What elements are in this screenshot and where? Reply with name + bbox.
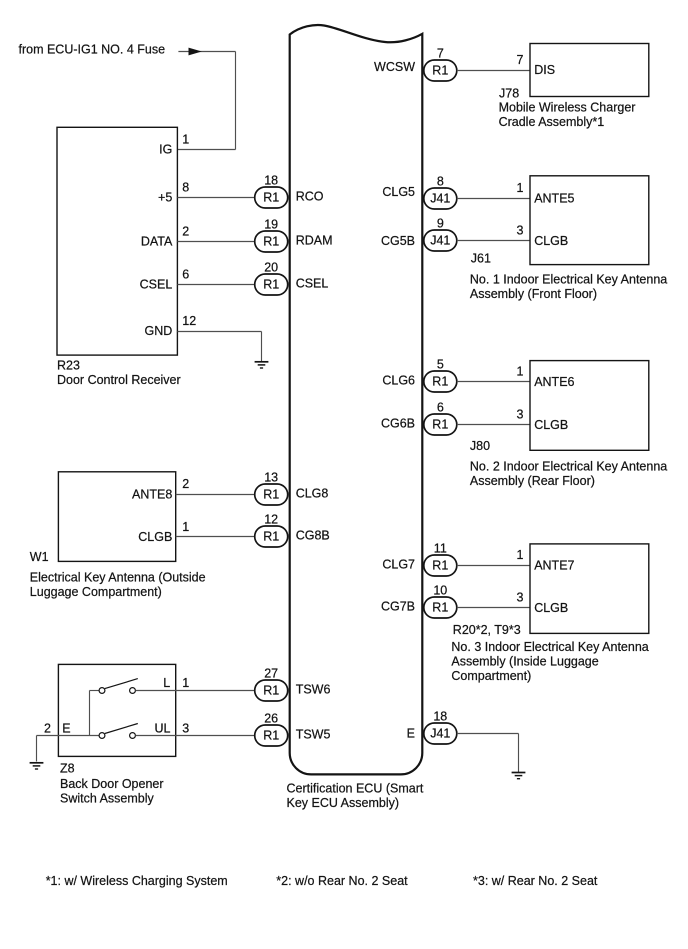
svg-text:Assembly (Inside Luggage: Assembly (Inside Luggage <box>451 655 598 669</box>
wire: CLG7 to ANTE7 pin 1 <box>457 565 530 567</box>
svg-text:18: 18 <box>433 710 447 724</box>
svg-text:CG5B: CG5B <box>381 234 415 248</box>
ECU block: Certification ECU (Smart Key ECU Assembly), wavy-top outline <box>290 25 423 774</box>
wire: W1 ANTE8 to R1 pin 13 <box>176 494 255 496</box>
svg-text:Back Door Opener: Back Door Opener <box>60 777 164 791</box>
svg-text:Mobile Wireless Charger: Mobile Wireless Charger <box>499 101 636 115</box>
svg-text:2: 2 <box>182 225 189 239</box>
svg-text:*1: w/ Wireless Charging Syste: *1: w/ Wireless Charging System <box>46 874 228 888</box>
svg-text:CLGB: CLGB <box>138 530 172 544</box>
wire: fuse feed vertical drop to IG <box>235 52 237 150</box>
svg-text:CLG6: CLG6 <box>382 374 415 388</box>
svg-text:2: 2 <box>44 721 51 735</box>
svg-text:R1: R1 <box>263 488 279 502</box>
svg-text:12: 12 <box>264 513 278 527</box>
switch S1 upper (L) contacts and lever <box>99 679 138 694</box>
svg-text:E: E <box>407 727 415 741</box>
svg-text:ANTE8: ANTE8 <box>132 487 172 501</box>
svg-text:7: 7 <box>437 47 444 61</box>
wire: R23 DATA to R1 pin 19 <box>177 241 254 243</box>
connector oval J41 pin 18 (E) <box>424 710 457 744</box>
svg-text:19: 19 <box>264 218 278 232</box>
component box J61 No.1 Indoor Electrical Key Antenna <box>530 176 649 265</box>
arrowhead on fuse feed wire <box>189 48 202 56</box>
svg-text:R1: R1 <box>263 278 279 292</box>
wire: R23 GND vertical <box>261 332 263 362</box>
svg-text:R1: R1 <box>432 559 448 573</box>
svg-text:R1: R1 <box>432 375 448 389</box>
svg-text:CSEL: CSEL <box>140 278 173 292</box>
svg-text:1: 1 <box>182 676 189 690</box>
svg-text:R1: R1 <box>263 684 279 698</box>
svg-text:J78: J78 <box>499 86 519 100</box>
component box J80 No.2 Indoor Electrical Key Antenna <box>530 361 649 451</box>
svg-text:DATA: DATA <box>141 234 173 248</box>
svg-text:TSW6: TSW6 <box>296 683 331 697</box>
connector oval R1 pin 11 (CLG7) <box>424 542 457 576</box>
svg-text:R20*2, T9*3: R20*2, T9*3 <box>453 623 521 637</box>
wire: upper switch to R1 pin 27 TSW6 <box>135 690 254 692</box>
svg-text:J41: J41 <box>430 192 450 206</box>
connector oval J41 pin 9 (CG5B) <box>424 217 457 251</box>
svg-text:DIS: DIS <box>534 63 555 77</box>
component box W1 Electrical Key Antenna <box>58 472 175 562</box>
component box R23 Door Control Receiver <box>57 127 177 355</box>
wire: R23 CSEL to R1 pin 20 <box>177 284 254 286</box>
connector oval R1 pin 13 (CLG8) <box>255 471 288 505</box>
svg-text:No. 3 Indoor Electrical Key An: No. 3 Indoor Electrical Key Antenna <box>451 640 648 654</box>
wire: IG pin 1 of R23 <box>177 149 235 151</box>
svg-text:CSEL: CSEL <box>296 277 329 291</box>
wire: CLG6 to ANTE6 pin 1 <box>457 381 530 383</box>
svg-text:Assembly (Front Floor): Assembly (Front Floor) <box>470 287 597 301</box>
ground symbol (Z8 E) <box>30 763 44 769</box>
svg-text:10: 10 <box>433 584 447 598</box>
svg-text:1: 1 <box>517 548 524 562</box>
svg-text:CLG5: CLG5 <box>382 185 415 199</box>
svg-text:from ECU-IG1 NO. 4 Fuse: from ECU-IG1 NO. 4 Fuse <box>19 42 166 56</box>
ground symbol (ECU E) <box>512 773 526 779</box>
svg-text:Z8: Z8 <box>60 761 75 775</box>
svg-text:13: 13 <box>264 471 278 485</box>
component box Z8 Back Door Opener Switch <box>58 664 175 756</box>
svg-text:8: 8 <box>182 181 189 195</box>
svg-text:CG7B: CG7B <box>381 600 415 614</box>
svg-text:R1: R1 <box>432 418 448 432</box>
svg-text:RCO: RCO <box>296 190 324 204</box>
svg-text:CLGB: CLGB <box>534 418 568 432</box>
svg-text:8: 8 <box>437 175 444 189</box>
svg-text:R1: R1 <box>432 64 448 78</box>
component box J78 Mobile Wireless Charger Cradle <box>530 44 649 97</box>
ground symbol (R23 GND) <box>255 362 269 368</box>
svg-text:J41: J41 <box>430 727 450 741</box>
svg-text:7: 7 <box>517 53 524 67</box>
svg-text:+5: +5 <box>158 191 172 205</box>
svg-text:CLG7: CLG7 <box>382 558 415 572</box>
connector oval R1 pin 12 (CG8B) <box>255 513 288 547</box>
wire: E pin into bottom switch <box>37 735 100 737</box>
wire: CG6B to CLGB pin 3 (J80) <box>457 424 530 426</box>
svg-text:W1: W1 <box>30 550 49 564</box>
wire: R23 +5 to R1 pin 18 <box>177 197 254 199</box>
svg-text:1: 1 <box>517 181 524 195</box>
wire: E pin drop to ground <box>518 734 520 773</box>
svg-text:*2: w/o Rear No. 2 Seat: *2: w/o Rear No. 2 Seat <box>276 874 408 888</box>
svg-text:1: 1 <box>182 520 189 534</box>
wire: switch common link vertical <box>89 691 91 736</box>
wire: WCSW to DIS pin 7 <box>457 70 530 72</box>
connector oval R1 pin 27 (TSW6) <box>255 667 288 701</box>
svg-text:L: L <box>163 676 170 690</box>
svg-text:3: 3 <box>182 721 189 735</box>
wire: W1 CLGB to R1 pin 12 <box>176 536 255 538</box>
svg-text:26: 26 <box>264 712 278 726</box>
svg-text:Luggage Compartment): Luggage Compartment) <box>30 585 162 599</box>
connector oval R1 pin 5 (CLG6) <box>424 358 457 392</box>
svg-text:CG6B: CG6B <box>381 417 415 431</box>
svg-text:J41: J41 <box>430 234 450 248</box>
svg-text:R1: R1 <box>263 191 279 205</box>
connector oval R1 pin 19 (RDAM) <box>255 218 288 252</box>
wire: R23 GND horizontal <box>177 331 261 333</box>
svg-text:CLG8: CLG8 <box>296 487 329 501</box>
svg-text:18: 18 <box>264 174 278 188</box>
svg-text:UL: UL <box>155 721 171 735</box>
connector oval R1 pin 26 (TSW5) <box>255 712 288 746</box>
svg-text:J80: J80 <box>470 439 490 453</box>
connector oval R1 pin 20 (CSEL) <box>255 261 288 295</box>
svg-text:Cradle Assembly*1: Cradle Assembly*1 <box>499 115 605 129</box>
svg-text:3: 3 <box>517 408 524 422</box>
svg-text:R1: R1 <box>263 530 279 544</box>
svg-text:CG8B: CG8B <box>296 529 330 543</box>
svg-text:Compartment): Compartment) <box>451 669 531 683</box>
connector oval R1 pin 18 (RCO) <box>255 174 288 208</box>
svg-text:27: 27 <box>264 667 278 681</box>
svg-text:TSW5: TSW5 <box>296 728 331 742</box>
svg-text:No. 1 Indoor Electrical Key An: No. 1 Indoor Electrical Key Antenna <box>470 272 667 286</box>
svg-text:20: 20 <box>264 261 278 275</box>
svg-text:E: E <box>62 721 70 735</box>
connector oval R1 pin 10 (CG7B) <box>424 584 457 618</box>
svg-text:CLGB: CLGB <box>534 601 568 615</box>
connector oval J41 pin 8 (CLG5) <box>424 175 457 209</box>
svg-text:1: 1 <box>517 365 524 379</box>
svg-text:6: 6 <box>182 268 189 282</box>
connector oval R1 pin 6 (CG6B) <box>424 401 457 435</box>
svg-text:1: 1 <box>182 132 189 146</box>
svg-text:WCSW: WCSW <box>374 60 415 74</box>
svg-text:Door Control Receiver: Door Control Receiver <box>57 373 181 387</box>
wire: CG7B to CLGB pin 3 (No.3) <box>457 607 530 609</box>
svg-text:ANTE6: ANTE6 <box>534 375 574 389</box>
svg-text:ANTE7: ANTE7 <box>534 559 574 573</box>
svg-text:Assembly (Rear Floor): Assembly (Rear Floor) <box>470 474 595 488</box>
wire: E pin horizontal <box>457 733 519 735</box>
svg-text:*3: w/ Rear No. 2 Seat: *3: w/ Rear No. 2 Seat <box>473 874 598 888</box>
svg-text:J61: J61 <box>471 252 491 266</box>
svg-text:R1: R1 <box>432 601 448 615</box>
svg-text:3: 3 <box>517 591 524 605</box>
svg-text:IG: IG <box>159 142 172 156</box>
svg-text:R1: R1 <box>263 729 279 743</box>
wire: lower switch to R1 pin 26 TSW5 <box>135 735 254 737</box>
svg-text:ANTE5: ANTE5 <box>534 191 574 205</box>
svg-text:No. 2 Indoor Electrical Key An: No. 2 Indoor Electrical Key Antenna <box>470 459 667 473</box>
svg-text:RDAM: RDAM <box>296 234 333 248</box>
svg-text:9: 9 <box>437 217 444 231</box>
connector oval R1 pin 7 (WCSW) <box>424 47 457 81</box>
svg-text:Certification ECU (Smart: Certification ECU (Smart <box>287 782 424 796</box>
svg-text:Electrical Key Antenna (Outsid: Electrical Key Antenna (Outside <box>30 571 206 585</box>
svg-text:5: 5 <box>437 358 444 372</box>
svg-text:Key ECU Assembly): Key ECU Assembly) <box>287 796 400 810</box>
component box No.3 Indoor Electrical Key Antenna <box>530 544 649 634</box>
svg-text:GND: GND <box>145 324 173 338</box>
svg-text:R1: R1 <box>263 235 279 249</box>
wire: link to upper switch contact <box>90 690 100 692</box>
wire: CLG5 to ANTE5 pin 1 <box>457 198 530 200</box>
svg-text:11: 11 <box>434 542 447 556</box>
svg-text:6: 6 <box>437 401 444 415</box>
svg-text:3: 3 <box>517 224 524 238</box>
wire: E drop to ground <box>36 736 38 762</box>
svg-text:R23: R23 <box>57 359 80 373</box>
svg-text:CLGB: CLGB <box>534 234 568 248</box>
svg-text:12: 12 <box>182 314 196 328</box>
wire: fuse feed horizontal <box>178 51 235 53</box>
wire: CG5B to CLGB pin 3 (J61) <box>457 240 530 242</box>
svg-text:2: 2 <box>182 477 189 491</box>
switch S2 lower (UL) contacts and lever <box>99 724 138 739</box>
svg-text:Switch Assembly: Switch Assembly <box>60 792 155 806</box>
